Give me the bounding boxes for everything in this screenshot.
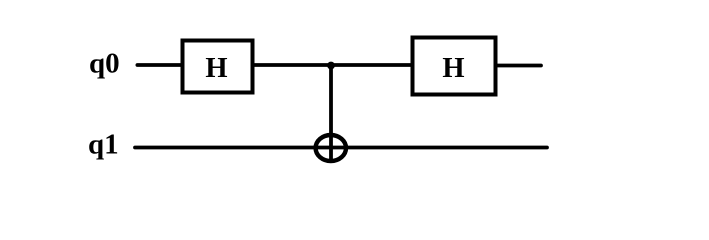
CNOT vertical wire	[329, 65, 333, 162]
gate H2 box	[413, 38, 496, 95]
wire q0 segment right of H2	[496, 64, 541, 68]
svg-text:H: H	[442, 53, 464, 84]
CNOT control dot on q0	[327, 62, 335, 70]
wire q1	[135, 146, 547, 150]
svg-text:q1: q1	[88, 129, 119, 161]
gate H1 box	[183, 41, 253, 93]
wire q0 segment left of H1	[137, 63, 182, 67]
CNOT target circle on q1	[316, 135, 346, 161]
svg-text:q0: q0	[89, 48, 120, 80]
wire q0 segment between H1 and H2	[253, 63, 412, 67]
svg-text:H: H	[205, 53, 227, 84]
